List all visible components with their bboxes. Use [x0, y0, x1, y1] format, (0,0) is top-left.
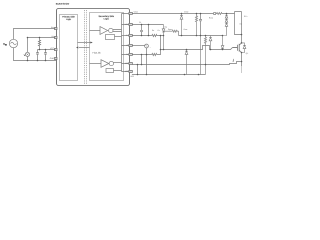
svg-text:Rvce: Rvce: [209, 17, 213, 20]
svg-text:GL: GL: [126, 53, 128, 56]
svg-text:Rgon: Rgon: [168, 28, 172, 31]
svg-text:VIN: VIN: [3, 42, 7, 46]
svg-text:Cres: Cres: [184, 28, 188, 31]
svg-text:C1: C1: [139, 21, 141, 24]
svg-text:Secondary Side: Secondary Side: [98, 15, 114, 18]
svg-text:IN-: IN-: [51, 35, 54, 38]
svg-text:Primary Side: Primary Side: [62, 15, 75, 18]
svg-text:VEE: VEE: [130, 75, 134, 78]
svg-text:Logic: Logic: [104, 17, 110, 20]
svg-text:~: ~: [150, 47, 151, 49]
svg-text:Rv: Rv: [152, 29, 154, 32]
svg-text:DC+: DC+: [244, 15, 248, 18]
svg-text:VISO: VISO: [134, 10, 139, 13]
svg-text:E: E: [233, 60, 235, 63]
svg-text:VCC: VCC: [50, 47, 55, 50]
svg-text:Dz: Dz: [240, 23, 242, 26]
svg-text:Q1: Q1: [246, 52, 248, 55]
svg-text:GND: GND: [50, 57, 55, 60]
svg-text:VISO: VISO: [184, 10, 189, 13]
svg-text:SCALE iDriver: SCALE iDriver: [56, 3, 70, 6]
svg-text:Dg: Dg: [165, 26, 167, 29]
svg-text:Logic: Logic: [66, 18, 72, 21]
svg-text:FluxLink: FluxLink: [93, 52, 102, 55]
svg-text:Cv: Cv: [158, 29, 160, 32]
